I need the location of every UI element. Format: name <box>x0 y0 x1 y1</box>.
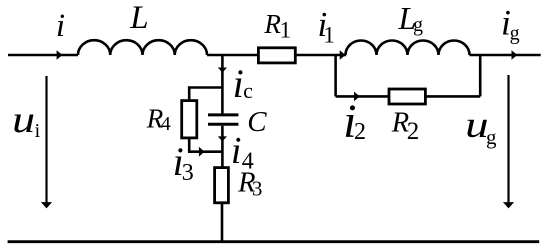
wire R1 to node B <box>296 54 346 57</box>
svg-text:3: 3 <box>182 160 194 186</box>
current arrow i3 head <box>199 147 205 157</box>
current arrow i_g head <box>512 50 518 60</box>
label i_c <box>233 61 254 106</box>
label L <box>129 0 148 36</box>
label C <box>247 106 267 138</box>
svg-text:2: 2 <box>354 119 366 145</box>
label R1 <box>263 9 291 43</box>
wire R3 to bottom rail <box>221 204 224 242</box>
wire parallel left vertical <box>334 55 337 96</box>
wire bottom rail <box>8 240 540 243</box>
label i4 <box>231 130 254 174</box>
voltage arrow u_g head <box>503 202 514 208</box>
current arrow i4 head <box>218 136 227 141</box>
inductor L <box>78 40 207 55</box>
resistor R4 <box>182 101 197 138</box>
resistor R2 <box>389 89 425 104</box>
wire L to node A <box>207 54 258 57</box>
svg-text:C: C <box>247 106 267 138</box>
label i2 <box>343 95 366 148</box>
svg-text:c: c <box>243 78 253 103</box>
wire middle branch upper <box>221 55 224 114</box>
label Lg <box>398 0 424 36</box>
voltage arrow u_g line <box>507 75 509 203</box>
wire parallel right vertical <box>479 55 482 96</box>
svg-text:i: i <box>233 61 244 106</box>
svg-text:3: 3 <box>252 176 263 200</box>
svg-text:1: 1 <box>280 18 292 43</box>
label R2 <box>391 108 420 146</box>
svg-text:i: i <box>231 130 242 172</box>
resistor R3 <box>215 168 229 203</box>
voltage arrow u_i line <box>45 76 47 203</box>
wire input top-left <box>8 54 78 57</box>
label i3 <box>173 139 194 186</box>
svg-text:4: 4 <box>161 113 171 135</box>
inductor Lg <box>346 41 470 56</box>
label i_g <box>501 3 520 45</box>
label i <box>56 8 65 44</box>
label u_g <box>465 105 497 149</box>
svg-text:g: g <box>510 22 520 44</box>
wire middle branch lower <box>221 126 224 167</box>
svg-text:g: g <box>413 14 423 36</box>
svg-text:L: L <box>129 0 148 36</box>
wire parallel lower branch <box>336 95 481 98</box>
wire output top-right <box>470 54 541 57</box>
current arrow i2 head <box>354 92 360 102</box>
resistor R1 <box>258 48 295 63</box>
svg-text:2: 2 <box>407 118 420 145</box>
svg-text:i: i <box>56 8 65 44</box>
voltage arrow u_i head <box>41 202 52 208</box>
capacitor C <box>208 115 238 124</box>
svg-text:u: u <box>12 99 35 141</box>
svg-text:g: g <box>486 125 497 149</box>
label i1 <box>318 5 335 48</box>
label u_i <box>12 99 40 142</box>
svg-text:1: 1 <box>323 23 335 48</box>
current arrow i head <box>57 50 63 60</box>
wire R4 branch bottom <box>189 139 222 152</box>
label R4 <box>146 103 171 134</box>
svg-text:i: i <box>35 120 41 142</box>
current arrow i1 head <box>340 50 346 60</box>
wire R4 branch top <box>189 88 222 101</box>
current arrow i_c head <box>218 68 227 73</box>
label R3 <box>237 168 262 201</box>
